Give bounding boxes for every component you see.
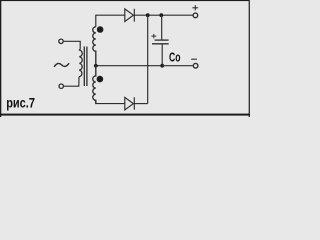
capacitor Co plates [152,40,169,44]
wire: secondary top lead up and right to diode [96,15,125,27]
terminal: AC input top (open circle) [59,39,63,43]
polarity dot: secondary lower winding start [97,76,104,83]
wire: minus rail from center tap to minus terminal [96,65,193,67]
transformer core (two lamination lines) [84,47,87,87]
terminal: output minus (open circle) [193,63,198,68]
plus output polarity sign [192,5,198,10]
wire: secondary bottom lead to diode D2 [96,100,125,103]
svg-text:Co: Co [169,49,181,64]
minus output polarity sign [191,58,197,60]
wire: primary bottom lead to bottom input [64,77,79,86]
ac source tilde symbol [54,63,69,67]
node: junction of D2 riser with plus rail [146,13,150,17]
terminal: output plus (open circle) [193,13,198,18]
wire: capacitor lower lead to minus rail [161,44,163,66]
svg-text:рис.7: рис.7 [6,95,35,111]
terminal: AC input bottom (open circle) [59,84,63,88]
wire: capacitor upper lead [161,15,163,40]
transformer secondary lower winding (4 bumps) [93,66,96,104]
wire: D1 cathode to plus terminal [134,14,192,16]
wire: top input to primary [64,41,81,49]
capacitor polarity plus mark [151,34,156,39]
wire: riser from D2 cathode up to plus rail (crosses minus rail) [147,15,149,103]
polarity dot: secondary upper winding start [97,26,104,33]
diode D1 (top, anode left / cathode right) [125,9,135,22]
node: junction of capacitor branch with plus rail [159,13,163,17]
diode D2 (bottom, anode left / cathode right) [125,97,135,110]
transformer primary winding (4 bumps) [79,49,82,76]
wire: D2 cathode to riser [134,103,147,105]
node: center tap junction [94,64,98,68]
transformer secondary upper winding (4 bumps) [93,27,96,66]
node: junction of capacitor with minus rail [160,64,164,68]
